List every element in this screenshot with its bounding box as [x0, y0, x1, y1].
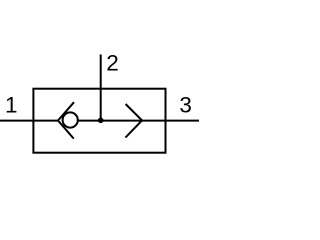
junction dot node	[98, 118, 104, 124]
svg-text:2: 2	[106, 50, 119, 75]
wire port 1	[0, 120, 58, 122]
svg-text:3: 3	[179, 92, 192, 117]
wire port 2	[100, 55, 102, 121]
flow arrow	[125, 104, 142, 138]
valve body outline	[33, 89, 165, 153]
svg-text:1: 1	[5, 92, 18, 117]
wire to port 3	[78, 120, 199, 122]
check valve ball	[63, 112, 78, 127]
check valve seat	[58, 102, 74, 138]
